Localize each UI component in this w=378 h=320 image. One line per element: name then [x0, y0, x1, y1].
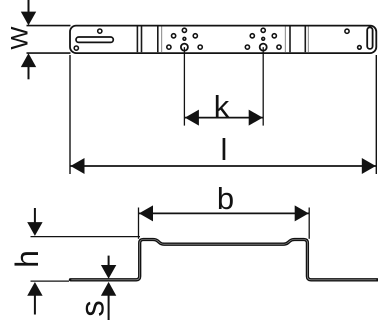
svg-text:s: s — [74, 300, 111, 317]
hole g1 middle small — [183, 37, 186, 40]
svg-text:h: h — [9, 250, 45, 268]
hole g1 upper-left — [172, 34, 176, 38]
hole g1 lower-right — [198, 45, 202, 49]
hole g2 upper-left — [250, 34, 254, 38]
dimension k extension line left — [183, 47, 185, 126]
hat profile cross-section — [71, 240, 378, 280]
dimension l line — [70, 165, 376, 167]
hole g2 top — [261, 28, 265, 32]
slot (right end, vertical) — [367, 27, 372, 49]
svg-text:k: k — [214, 89, 230, 124]
hole g2 upper-right — [272, 34, 276, 38]
hole right-top — [345, 29, 349, 33]
hole g2 big center — [260, 44, 267, 51]
hole right-bottom — [358, 46, 362, 50]
break line 1a — [136, 27, 138, 53]
break line 1c — [157, 27, 159, 53]
dimension k line — [184, 117, 263, 119]
svg-text:W: W — [7, 26, 34, 50]
dimension h leader bottom — [34, 296, 36, 315]
hole left-bottom — [74, 46, 78, 50]
h bottom extension line — [31, 280, 70, 282]
hole group 1 — [167, 28, 203, 50]
break line 1b — [141, 27, 143, 53]
hole g1 big center — [181, 44, 188, 51]
break line 1d — [161, 27, 163, 53]
dimension l extension line right — [375, 55, 377, 174]
dimension l extension line left — [69, 55, 71, 174]
hole g2 middle small — [262, 37, 265, 40]
dimension W leader top — [28, 0, 30, 13]
break line 2c — [304, 27, 306, 53]
wire: W bottom extension line — [27, 52, 71, 54]
hole left-top — [98, 29, 102, 33]
dimension h leader top — [34, 208, 36, 223]
dimension s leader bottom — [108, 295, 110, 320]
break line 2a — [284, 27, 286, 53]
break line 2d — [307, 27, 309, 53]
break line 2b — [289, 27, 291, 53]
svg-text:b: b — [217, 181, 234, 216]
hole g1 lower-left — [167, 45, 171, 49]
dimension b line — [139, 212, 310, 214]
slot (left section, horizontal) — [76, 37, 113, 42]
svg-text:l: l — [221, 132, 228, 167]
hole g2 lower-left — [245, 45, 249, 49]
dimension s leader top — [108, 256, 110, 266]
hole g1 upper-right — [193, 34, 197, 38]
hole g1 top — [182, 28, 186, 32]
dimension k extension line right — [262, 47, 264, 126]
strip outline (top view of profile, interrupted) — [70, 26, 376, 53]
wire: W top extension line — [27, 25, 71, 27]
dimension W leader bottom — [28, 66, 30, 79]
hole group 2 — [245, 28, 281, 50]
h top extension line — [31, 236, 141, 238]
dimension b extension line left — [138, 208, 140, 239]
hole g2 lower-right — [277, 45, 281, 49]
dimension b extension line right — [308, 208, 310, 239]
